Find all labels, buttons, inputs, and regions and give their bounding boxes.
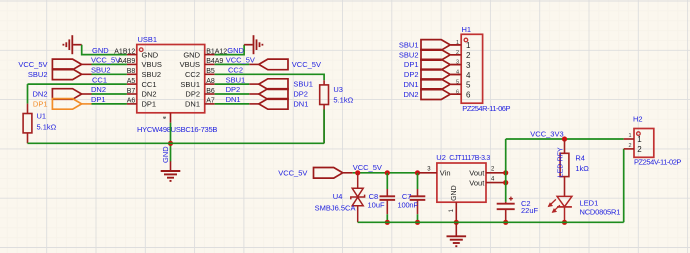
U2 pin 3 stub (Vin) bbox=[419, 167, 437, 173]
H1 outside pin numbers bbox=[456, 40, 459, 95]
svg-text:DP2: DP2 bbox=[404, 70, 419, 79]
U2 pin 4 stub bbox=[486, 176, 506, 182]
junction Vout2 bbox=[503, 170, 508, 175]
label USB1 bbox=[138, 35, 158, 44]
svg-text:HYCW498USBC16-735B: HYCW498USBC16-735B bbox=[137, 125, 217, 134]
regulator U2 box bbox=[437, 163, 486, 202]
net flag SBU1 bbox=[249, 79, 288, 90]
svg-text:GND: GND bbox=[92, 46, 109, 55]
svg-text:3: 3 bbox=[466, 61, 471, 70]
svg-text:U3: U3 bbox=[333, 85, 343, 94]
wire DN1 right bbox=[215, 103, 250, 105]
wire U3 to GND rail bbox=[323, 109, 325, 143]
label 5.1kOhm U1 bbox=[37, 123, 57, 132]
U2 pin 2 stub bbox=[486, 167, 506, 173]
net label DN2 (on wire) bbox=[91, 85, 106, 94]
label VCC_5V (left of flag) bbox=[18, 60, 47, 69]
USB1 left pin numbers bbox=[114, 48, 135, 104]
net label SBU2 (on wire) bbox=[91, 66, 111, 75]
label SBU1 (right of flag) bbox=[293, 80, 313, 89]
label DN2 (H1) bbox=[403, 90, 418, 99]
svg-text:DN1: DN1 bbox=[185, 100, 200, 109]
ground (below U2) bbox=[447, 222, 467, 246]
svg-text:DN1: DN1 bbox=[226, 95, 241, 104]
junction C7 tap bbox=[415, 170, 420, 175]
svg-text:B5: B5 bbox=[206, 68, 215, 75]
wire CC2 to U3 bbox=[215, 74, 325, 80]
U2 GND pin bbox=[449, 202, 456, 222]
wire DP2 right bbox=[215, 93, 250, 95]
label 1kOhm R4 bbox=[575, 164, 589, 173]
svg-text:GND: GND bbox=[142, 50, 159, 59]
svg-text:DN1: DN1 bbox=[293, 100, 308, 109]
label U4 bbox=[333, 192, 343, 201]
junction C8 bottom bbox=[385, 220, 390, 225]
USB1 right pin numbers bbox=[206, 48, 227, 104]
wire H2 pin2 riser bbox=[623, 149, 625, 222]
svg-text:GND: GND bbox=[227, 46, 244, 55]
label CJT1117B-3.3 bbox=[449, 155, 490, 162]
svg-text:B8: B8 bbox=[127, 68, 136, 75]
H1 pin-1 marker bbox=[464, 38, 468, 42]
USB1 right pin names bbox=[180, 50, 201, 108]
label DP2 (right of flag) bbox=[293, 90, 308, 99]
svg-text:DP1: DP1 bbox=[142, 100, 157, 109]
label C8 bbox=[369, 192, 379, 201]
label NCD0805R1 bbox=[580, 208, 621, 217]
label SBU2 (left of flag) bbox=[28, 70, 48, 79]
label SBU2 (H1) bbox=[399, 50, 419, 59]
svg-text:CC2: CC2 bbox=[185, 70, 200, 79]
svg-text:6: 6 bbox=[466, 91, 471, 100]
label DN1 (right of flag) bbox=[293, 100, 308, 109]
net flag SBU1 (H1) bbox=[421, 40, 460, 51]
net flag VCC_5V (supply) bbox=[314, 168, 353, 179]
svg-text:5.1kΩ: 5.1kΩ bbox=[37, 123, 57, 132]
junction C7 bottom bbox=[415, 220, 420, 225]
svg-text:PZ254V-11-02P: PZ254V-11-02P bbox=[634, 158, 681, 167]
svg-text:DP2: DP2 bbox=[226, 85, 241, 94]
svg-text:Vin: Vin bbox=[440, 169, 451, 178]
label U2 bbox=[436, 153, 446, 162]
svg-text:5.1kΩ: 5.1kΩ bbox=[333, 96, 353, 105]
capacitor C7 bbox=[410, 173, 426, 223]
svg-text:A4B9: A4B9 bbox=[118, 58, 135, 65]
label VCC_5V (right of flag) bbox=[292, 60, 321, 69]
svg-text:2: 2 bbox=[637, 145, 642, 154]
USB1 right pin stubs bbox=[205, 55, 215, 104]
svg-text:22uF: 22uF bbox=[521, 206, 539, 215]
svg-text:SBU2: SBU2 bbox=[142, 70, 162, 79]
net flag VCC_5V (right) bbox=[249, 59, 288, 70]
svg-text:DN1: DN1 bbox=[403, 80, 418, 89]
svg-text:CJT1117B-3.3: CJT1117B-3.3 bbox=[449, 155, 490, 162]
wire GND right up bbox=[215, 45, 245, 55]
svg-text:1: 1 bbox=[628, 133, 631, 139]
svg-text:SBU1: SBU1 bbox=[293, 80, 313, 89]
net label VCC_5V (right wire) bbox=[226, 56, 255, 65]
label DP2 (H1) bbox=[404, 70, 419, 79]
svg-text:DP1: DP1 bbox=[33, 100, 48, 109]
net flag DP2 bbox=[249, 89, 288, 100]
resistor R4 bbox=[560, 139, 569, 196]
svg-text:SBU1: SBU1 bbox=[399, 41, 419, 50]
svg-text:GND: GND bbox=[161, 146, 170, 163]
TVS diode U4 bbox=[351, 173, 365, 223]
label DN2 (left of flag) bbox=[32, 90, 47, 99]
svg-text:H2: H2 bbox=[633, 115, 643, 124]
label SBU1 (H1) bbox=[399, 41, 419, 50]
junction GND rail / pad bbox=[168, 141, 173, 146]
svg-text:LED-RFY: LED-RFY bbox=[557, 147, 564, 177]
svg-text:1: 1 bbox=[637, 135, 642, 144]
net label GND (right) bbox=[227, 46, 244, 55]
label 22uF bbox=[521, 206, 539, 215]
svg-text:DP1: DP1 bbox=[91, 95, 106, 104]
net flag DN2 (H1) bbox=[421, 89, 460, 100]
net label CC1 bbox=[92, 75, 107, 84]
junction R4 tap bbox=[562, 136, 567, 141]
svg-text:VBUS: VBUS bbox=[142, 60, 162, 69]
junction Vout4 bbox=[503, 180, 508, 185]
svg-text:SBU1: SBU1 bbox=[226, 75, 246, 84]
wire SBU1 right bbox=[215, 83, 250, 85]
svg-text:10uF: 10uF bbox=[368, 201, 386, 210]
label DN1 (H1) bbox=[403, 80, 418, 89]
svg-text:CC2: CC2 bbox=[228, 66, 243, 75]
net label GND (rotated) bbox=[161, 146, 170, 163]
svg-text:CC1: CC1 bbox=[92, 75, 107, 84]
label SMBJ6.5CA bbox=[315, 204, 356, 213]
op-amp U? / IC USB1 box bbox=[137, 45, 205, 113]
svg-text:SBU2: SBU2 bbox=[91, 66, 111, 75]
svg-text:DN2: DN2 bbox=[32, 90, 47, 99]
svg-text:100nF: 100nF bbox=[398, 201, 419, 210]
U2 pin name Vin bbox=[440, 169, 451, 178]
svg-text:H1: H1 bbox=[462, 25, 472, 34]
svg-text:VCC_3V3: VCC_3V3 bbox=[530, 130, 563, 139]
USB1 bottom pad pin bbox=[163, 113, 171, 123]
label 100nF bbox=[398, 201, 419, 210]
connector H1 box bbox=[461, 34, 482, 103]
net flag DP1 (left, orange) bbox=[52, 99, 127, 110]
label C7 bbox=[402, 192, 412, 201]
svg-text:NCD0805R1: NCD0805R1 bbox=[580, 208, 621, 217]
svg-text:B7: B7 bbox=[127, 88, 136, 95]
svg-text:GND: GND bbox=[451, 185, 458, 201]
label 10uF bbox=[368, 201, 386, 210]
wire GND rail (U1 to U3) bbox=[28, 142, 325, 144]
svg-text:SBU2: SBU2 bbox=[399, 50, 419, 59]
svg-text:VBUS: VBUS bbox=[180, 60, 200, 69]
svg-text:DN2: DN2 bbox=[142, 90, 157, 99]
svg-text:B6: B6 bbox=[206, 88, 215, 95]
svg-text:DP2: DP2 bbox=[185, 90, 200, 99]
net flag SBU2 (H1) bbox=[421, 50, 460, 61]
svg-text:A6: A6 bbox=[127, 98, 136, 105]
svg-text:VCC_5V: VCC_5V bbox=[278, 168, 307, 177]
wire Vout vertical bbox=[505, 139, 507, 202]
svg-text:2: 2 bbox=[628, 143, 631, 149]
svg-text:DP2: DP2 bbox=[293, 90, 308, 99]
svg-text:PZ254R-11-06P: PZ254R-11-06P bbox=[462, 104, 510, 113]
svg-text:4: 4 bbox=[466, 71, 471, 80]
svg-text:A7: A7 bbox=[206, 98, 215, 105]
U2 pin name GND (rotated) bbox=[451, 185, 458, 201]
svg-text:Vout: Vout bbox=[469, 169, 485, 178]
svg-text:U2: U2 bbox=[436, 153, 446, 162]
net label CC2 bbox=[228, 66, 243, 75]
label C2 bbox=[521, 199, 531, 208]
net label DP1 (on wire) bbox=[91, 95, 106, 104]
svg-text:A5: A5 bbox=[127, 78, 136, 85]
svg-text:DN2: DN2 bbox=[403, 90, 418, 99]
svg-text:SBU2: SBU2 bbox=[28, 70, 48, 79]
junction LED bottom bbox=[562, 220, 567, 225]
H2 inside pin numbers bbox=[637, 135, 642, 154]
wire GND bottom rail bbox=[358, 221, 624, 223]
net flag DN1 bbox=[249, 99, 288, 110]
net flag DP1 (H1) bbox=[421, 59, 460, 70]
junction U4 tap bbox=[355, 170, 360, 175]
H2 pin 1 stub bbox=[624, 133, 634, 139]
label DP1 (left of flag) bbox=[33, 100, 48, 109]
svg-text:Vout: Vout bbox=[469, 178, 485, 187]
svg-text:1: 1 bbox=[466, 41, 471, 50]
net label LED-RFY (rotated) bbox=[557, 147, 564, 177]
label VCC_5V (supply) bbox=[278, 168, 307, 177]
label 5.1kOhm U3 bbox=[333, 96, 353, 105]
wire VCC_5V to U2 Vin bbox=[353, 172, 419, 174]
H2 pin 2 stub bbox=[624, 143, 634, 149]
net label VCC_3V3 bbox=[530, 130, 563, 139]
label HYCW498USBC16-735B bbox=[137, 125, 217, 134]
net label SBU1 (on wire) bbox=[226, 75, 246, 84]
svg-text:U4: U4 bbox=[333, 192, 343, 201]
net flag DN2 (left) bbox=[52, 89, 127, 100]
USB1 left pin stubs bbox=[127, 55, 137, 104]
wire CC1 from U1 branch bbox=[28, 83, 127, 85]
USB1 left pin names bbox=[142, 50, 162, 108]
label H2 bbox=[633, 115, 643, 124]
svg-text:A8: A8 bbox=[206, 78, 215, 85]
svg-text:VCC_5V: VCC_5V bbox=[226, 56, 255, 65]
svg-text:DN2: DN2 bbox=[91, 85, 106, 94]
net label VCC_5V (top wire) bbox=[353, 163, 382, 172]
net label VCC_5V (on wire) bbox=[91, 56, 120, 65]
wire VBUS right bbox=[215, 63, 250, 65]
label PZ254R-11-06P bbox=[462, 104, 510, 113]
U2 pin name Vout2 bbox=[469, 169, 485, 178]
svg-text:R4: R4 bbox=[575, 153, 585, 162]
wire GND to USB1 pin A1B12 bbox=[82, 45, 127, 55]
wire VCC_3V3 rail bbox=[506, 138, 624, 140]
svg-text:VCC_5V: VCC_5V bbox=[91, 56, 120, 65]
svg-text:U1: U1 bbox=[37, 111, 47, 120]
svg-text:GND: GND bbox=[183, 50, 200, 59]
wire USB1 pad to GND rail bbox=[170, 123, 172, 162]
capacitor C2 (polarized) bbox=[497, 197, 515, 223]
connector H2 box bbox=[634, 129, 654, 158]
net label DP2 (on wire) bbox=[226, 85, 241, 94]
svg-text:5: 5 bbox=[466, 81, 471, 90]
svg-text:LED1: LED1 bbox=[580, 198, 599, 207]
ground (below USB1) bbox=[161, 161, 181, 181]
junction U2 GND bbox=[454, 220, 459, 225]
net flag VCC_5V (left) bbox=[52, 59, 127, 70]
svg-text:A1B12: A1B12 bbox=[114, 48, 135, 55]
label U1 bbox=[37, 111, 47, 120]
net flag SBU2 (left) bbox=[52, 69, 127, 80]
ground (top-left) bbox=[63, 35, 81, 54]
net flag DN1 (H1) bbox=[421, 79, 460, 90]
svg-text:DP1: DP1 bbox=[404, 60, 419, 69]
H2 pin-1 marker bbox=[637, 132, 641, 136]
svg-text:VCC_5V: VCC_5V bbox=[292, 60, 321, 69]
H1 pin stubs bbox=[451, 45, 461, 94]
ground (right of USB1) bbox=[244, 35, 262, 54]
net label DN1 (on wire) bbox=[226, 95, 241, 104]
resistor U3 bbox=[320, 80, 329, 143]
net flag DP2 (H1) bbox=[421, 69, 460, 80]
svg-text:2: 2 bbox=[466, 51, 471, 60]
H1 inside pin numbers bbox=[466, 41, 471, 99]
resistor U1 bbox=[23, 104, 32, 144]
svg-text:USB1: USB1 bbox=[138, 35, 158, 44]
label U3 bbox=[333, 85, 343, 94]
junction C2 bottom bbox=[503, 220, 508, 225]
wire CC1 down to U1 bbox=[27, 84, 29, 104]
USB1 pin-1 marker bbox=[139, 48, 143, 52]
capacitor C8 bbox=[380, 173, 396, 223]
label H1 bbox=[462, 25, 472, 34]
junction C8 tap bbox=[385, 170, 390, 175]
label DP1 (H1) bbox=[404, 60, 419, 69]
svg-text:CC1: CC1 bbox=[142, 80, 157, 89]
LED LED1 bbox=[549, 196, 572, 222]
U2 pin name Vout4 bbox=[469, 178, 485, 187]
label LED1 bbox=[580, 198, 599, 207]
svg-text:SBU1: SBU1 bbox=[180, 80, 200, 89]
net label GND (left) bbox=[92, 46, 109, 55]
svg-text:1kΩ: 1kΩ bbox=[575, 164, 589, 173]
svg-text:VCC_5V: VCC_5V bbox=[18, 60, 47, 69]
svg-text:SMBJ6.5CA: SMBJ6.5CA bbox=[315, 204, 356, 213]
label PZ254V-11-02P bbox=[634, 158, 681, 167]
label R4 bbox=[575, 153, 585, 162]
